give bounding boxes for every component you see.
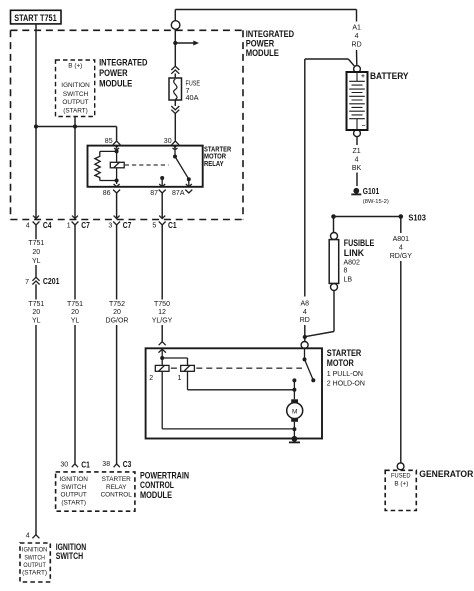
svg-text:RD: RD [300, 317, 310, 324]
svg-text:T751: T751 [28, 240, 44, 247]
svg-text:C1: C1 [81, 460, 90, 469]
svg-text:C201: C201 [43, 277, 60, 286]
svg-text:INTEGRATED: INTEGRATED [99, 58, 148, 68]
svg-text:G101: G101 [363, 187, 380, 196]
svg-text:IGNITION: IGNITION [59, 476, 88, 483]
svg-text:1: 1 [67, 222, 71, 229]
svg-text:20: 20 [32, 249, 40, 256]
svg-text:BATTERY: BATTERY [370, 71, 409, 81]
svg-text:C4: C4 [43, 221, 52, 230]
svg-text:CONTROL: CONTROL [101, 492, 133, 499]
svg-text:4: 4 [26, 222, 30, 229]
svg-text:RD: RD [352, 41, 362, 48]
svg-text:A1: A1 [352, 25, 361, 32]
svg-text:T751: T751 [67, 301, 83, 308]
svg-text:30: 30 [164, 138, 172, 145]
svg-text:7: 7 [25, 279, 29, 286]
svg-text:86: 86 [103, 190, 111, 197]
svg-text:IGNITION: IGNITION [61, 82, 90, 89]
svg-text:C3: C3 [123, 460, 132, 469]
svg-text:(8W-15-2): (8W-15-2) [363, 199, 389, 205]
svg-text:40A: 40A [186, 93, 199, 102]
svg-text:87: 87 [150, 190, 158, 197]
svg-text:A802: A802 [344, 259, 360, 266]
svg-text:INTEGRATED: INTEGRATED [246, 29, 295, 39]
svg-text:CONTROL: CONTROL [140, 480, 174, 490]
svg-text:4: 4 [355, 33, 359, 40]
svg-text:START T751: START T751 [14, 13, 57, 23]
svg-text:4: 4 [399, 245, 403, 252]
svg-text:T750: T750 [154, 301, 170, 308]
svg-text:MODULE: MODULE [99, 79, 132, 89]
svg-text:M: M [292, 408, 297, 415]
svg-text:DG/OR: DG/OR [106, 318, 129, 325]
svg-text:T751: T751 [28, 301, 44, 308]
svg-text:87A: 87A [172, 190, 185, 197]
svg-text:C7: C7 [81, 221, 90, 230]
svg-text:B (+): B (+) [394, 481, 408, 488]
svg-text:SWITCH: SWITCH [24, 554, 45, 561]
svg-text:IGNITION: IGNITION [22, 546, 48, 553]
svg-text:3: 3 [108, 222, 112, 229]
svg-text:YL: YL [32, 318, 41, 325]
svg-text:C7: C7 [123, 221, 132, 230]
svg-text:12: 12 [158, 309, 166, 316]
svg-text:20: 20 [32, 309, 40, 316]
svg-text:YL: YL [71, 318, 80, 325]
svg-text:30: 30 [60, 462, 68, 469]
svg-text:RD/GY: RD/GY [390, 253, 413, 260]
svg-text:OUTPUT: OUTPUT [62, 99, 88, 106]
svg-text:MODULE: MODULE [140, 490, 172, 500]
svg-text:(START): (START) [63, 108, 88, 115]
svg-text:4: 4 [303, 309, 307, 316]
svg-text:MODULE: MODULE [246, 48, 279, 58]
svg-text:Z1: Z1 [353, 148, 361, 155]
svg-text:20: 20 [71, 309, 79, 316]
svg-text:LB: LB [344, 276, 353, 283]
svg-text:T752: T752 [109, 301, 125, 308]
svg-text:8: 8 [344, 268, 348, 275]
svg-text:FUSIBLE: FUSIBLE [344, 238, 374, 248]
svg-text:20: 20 [113, 309, 121, 316]
svg-text:BK: BK [352, 165, 362, 172]
svg-text:LINK: LINK [344, 248, 365, 258]
svg-text:5: 5 [152, 222, 156, 229]
svg-text:+: + [361, 73, 365, 80]
svg-text:SWITCH: SWITCH [56, 551, 83, 561]
svg-text:A8: A8 [301, 301, 310, 308]
svg-text:4: 4 [26, 533, 30, 540]
svg-text:YL/GY: YL/GY [152, 318, 173, 325]
svg-text:FUSED: FUSED [391, 473, 411, 480]
svg-text:POWER: POWER [246, 39, 275, 49]
svg-text:–: – [362, 122, 366, 129]
svg-text:POWERTRAIN: POWERTRAIN [140, 471, 189, 481]
svg-text:S103: S103 [408, 213, 426, 222]
svg-text:38: 38 [102, 461, 110, 468]
svg-text:MOTOR: MOTOR [327, 358, 354, 368]
svg-text:STARTER: STARTER [102, 476, 132, 483]
svg-text:1 PULL-ON: 1 PULL-ON [327, 371, 363, 378]
svg-text:A801: A801 [393, 236, 409, 243]
svg-text:RELAY: RELAY [204, 159, 224, 168]
svg-text:85: 85 [105, 138, 113, 145]
svg-text:2: 2 [149, 375, 153, 382]
svg-text:1: 1 [177, 375, 181, 382]
svg-text:OUTPUT: OUTPUT [61, 492, 87, 499]
svg-text:(START): (START) [61, 499, 86, 506]
svg-text:POWER: POWER [99, 68, 128, 78]
svg-text:YL: YL [32, 258, 41, 265]
svg-text:SWITCH: SWITCH [63, 91, 89, 98]
svg-text:RELAY: RELAY [106, 484, 127, 491]
svg-text:SWITCH: SWITCH [61, 484, 87, 491]
svg-text:STARTER: STARTER [327, 348, 362, 358]
svg-text:GENERATOR: GENERATOR [419, 469, 473, 479]
svg-text:2 HOLD-ON: 2 HOLD-ON [327, 380, 365, 387]
svg-text:(START): (START) [22, 570, 47, 577]
svg-text:B (+): B (+) [68, 62, 82, 69]
svg-text:OUTPUT: OUTPUT [23, 562, 46, 569]
svg-text:4: 4 [355, 157, 359, 164]
svg-text:C1: C1 [168, 221, 177, 230]
